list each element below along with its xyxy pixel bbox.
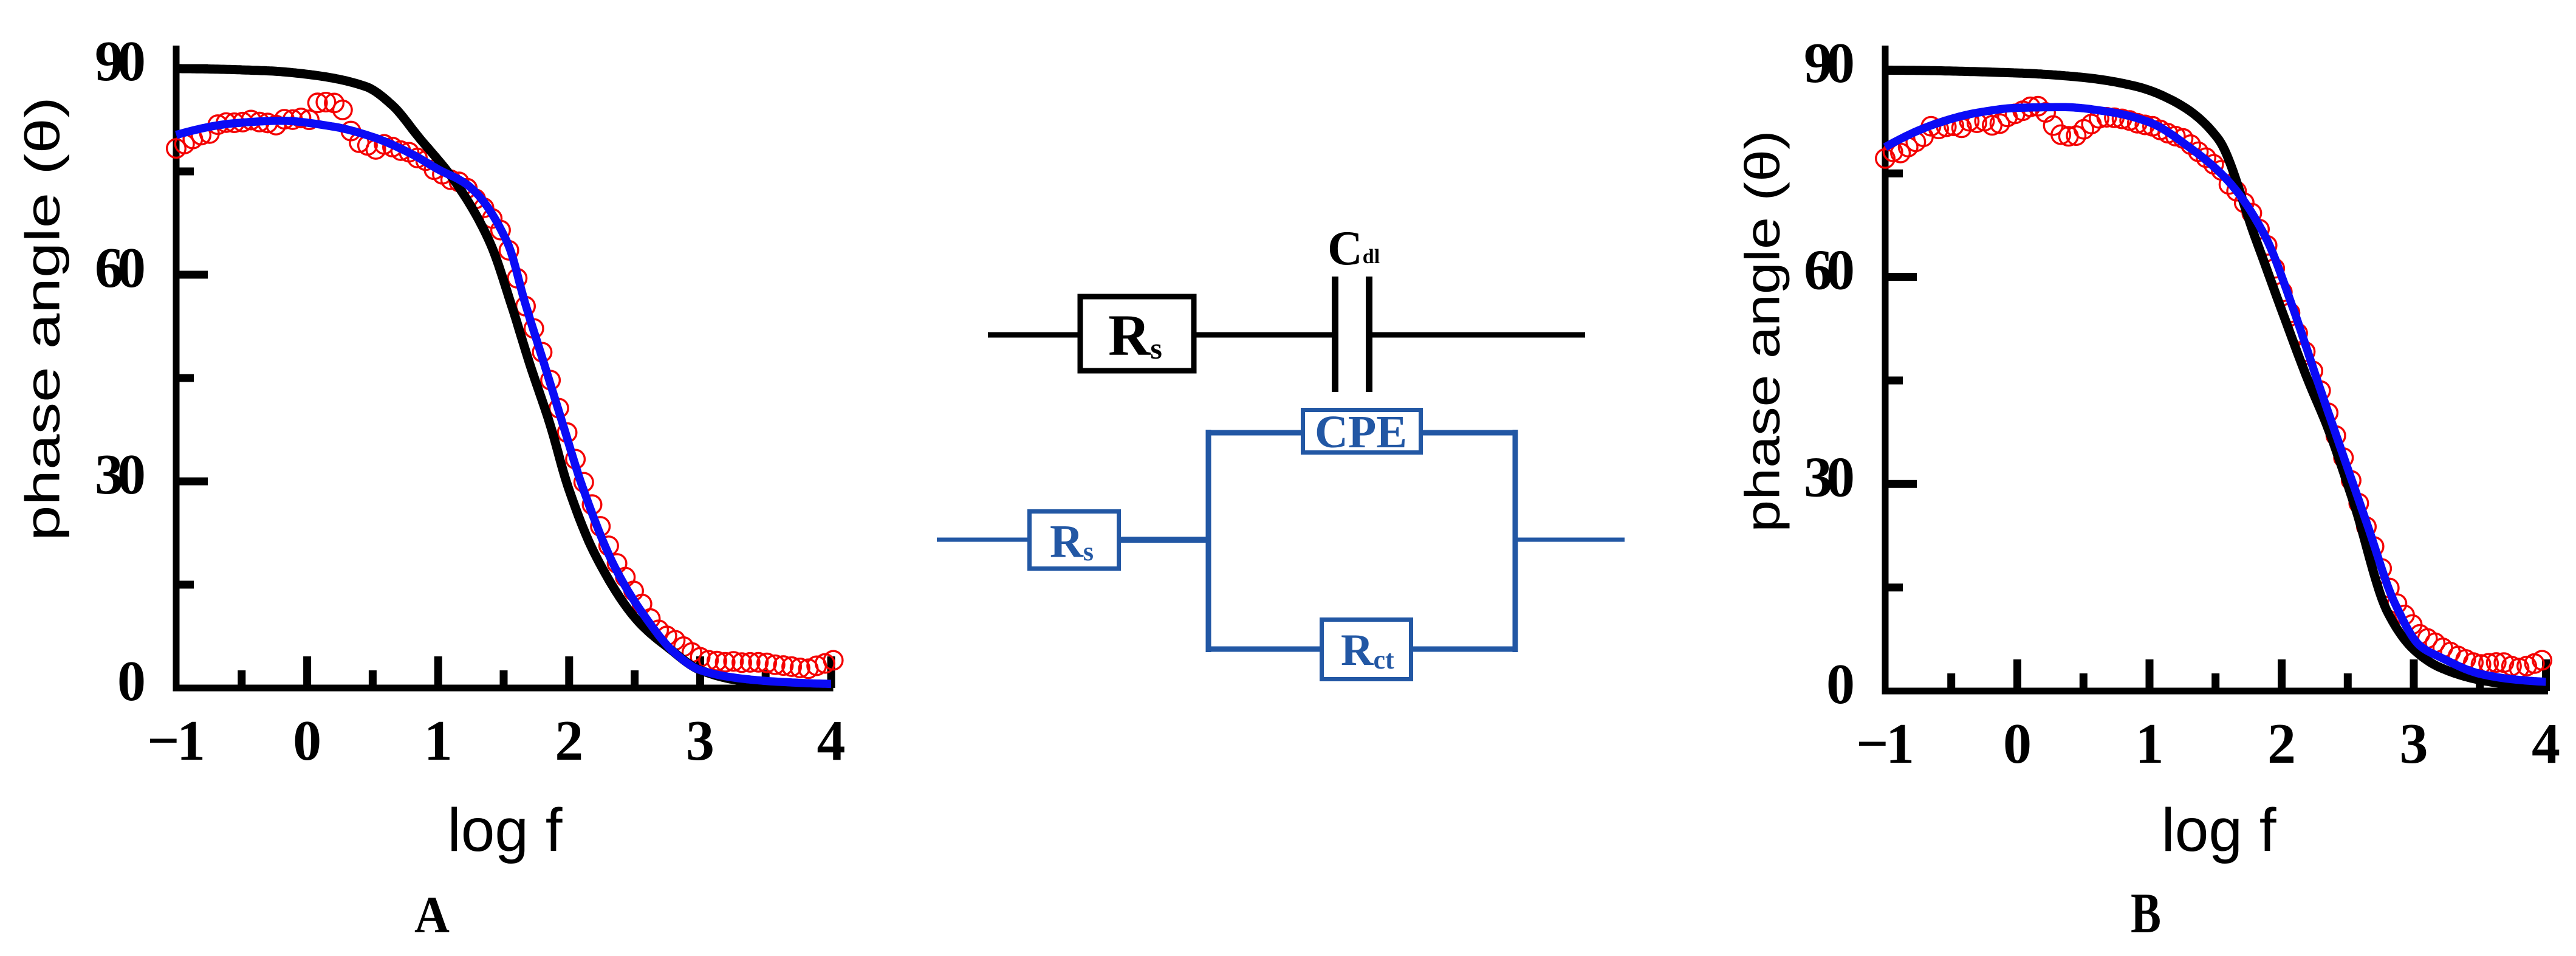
plotB y tick 90 (1885, 66, 1917, 74)
plotA y tick 15 (176, 581, 194, 589)
svg-text:3: 3 (686, 709, 714, 772)
top branch wire left (to CPE) (1206, 430, 1304, 436)
wire left stub (black circuit) (988, 332, 1081, 338)
plotA y tick 75 (176, 168, 194, 176)
plotB x tick 3.0 (2410, 659, 2418, 691)
svg-text:CPE: CPE (1315, 407, 1407, 458)
svg-text:0: 0 (2003, 712, 2032, 775)
capacitor Cdl left plate (1332, 277, 1338, 392)
plotA x tick 1.5 (500, 670, 508, 688)
svg-text:60: 60 (1804, 239, 1855, 302)
svg-text:3: 3 (2400, 712, 2428, 775)
plotB x tick -0.5 (1947, 673, 1955, 691)
bottom branch wire left (to Rct) (1206, 647, 1323, 652)
wire left stub (blue circuit) (937, 538, 1030, 542)
plotB blue fit curve (Rs+CPE||Rct) (1885, 107, 2546, 681)
svg-text:90: 90 (1804, 32, 1855, 95)
plotA y tick 45 (176, 374, 194, 382)
plotA black fit curve (Rs+Cdl) (176, 69, 831, 686)
plotB black fit curve (Rs+Cdl) (1885, 70, 2546, 687)
plotA x-axis (173, 685, 834, 692)
plotA y-axis (173, 46, 180, 692)
plotB x-axis (1882, 688, 2549, 695)
plotB y tick 75 (1885, 170, 1903, 177)
plotA x tick 1.0 (434, 656, 442, 688)
plotA x tick 2.5 (631, 670, 639, 688)
resistor Rct box (blue) (1322, 620, 1411, 679)
svg-text:phase angle (θ): phase angle (θ) (1735, 130, 1789, 532)
svg-text:phase angle (θ): phase angle (θ) (16, 97, 70, 541)
plotB x tick 0.0 (2013, 659, 2021, 691)
svg-text:log f: log f (447, 796, 562, 864)
plotA y tick 60 (176, 271, 208, 279)
plotB x tick 0.5 (2080, 673, 2088, 691)
plotB x tick 2.0 (2278, 659, 2286, 691)
svg-text:30: 30 (1804, 445, 1855, 509)
plotA x tick 0.5 (369, 670, 377, 688)
plotB y tick 45 (1885, 377, 1903, 385)
plotA x tick 3.0 (696, 656, 704, 688)
wire Rs to Cdl (black circuit) (1193, 332, 1333, 338)
svg-text:0: 0 (1826, 653, 1855, 716)
svg-text:log f: log f (2161, 796, 2276, 864)
svg-text:2: 2 (2267, 712, 2296, 775)
svg-text:90: 90 (95, 30, 146, 93)
svg-text:1: 1 (424, 709, 453, 772)
svg-text:0: 0 (117, 650, 146, 713)
plotB x tick 4.0 (2542, 659, 2550, 691)
svg-text:B: B (2131, 882, 2161, 945)
svg-text:30: 30 (95, 443, 146, 506)
plotB x tick 2.5 (2344, 673, 2352, 691)
plotA blue fit curve (Rs+CPE||Rct) (176, 121, 831, 684)
wire Rs to parallel node (blue circuit) (1118, 537, 1211, 543)
svg-text:A: A (414, 886, 450, 944)
plotA x tick 0.0 (303, 656, 311, 688)
plotB y tick 15 (1885, 583, 1903, 591)
plotA x tick 4.0 (827, 656, 835, 688)
CPE box (blue) (1303, 410, 1421, 453)
plotB x tick 1.5 (2211, 673, 2219, 691)
plotB red data circles (1876, 97, 2552, 678)
plotA x tick -0.5 (238, 670, 245, 688)
plotB y tick 30 (1885, 480, 1917, 488)
plotA x tick 3.5 (762, 670, 770, 688)
plotA y tick 90 (176, 64, 208, 72)
parallel loop left vertical wire (1206, 430, 1211, 652)
resistor Rs box (black) (1080, 297, 1194, 371)
bottom branch wire right (from Rct) (1410, 647, 1518, 652)
resistor Rs box (blue) (1030, 512, 1119, 569)
top branch wire right (from CPE) (1420, 430, 1518, 436)
svg-text:4: 4 (817, 709, 846, 772)
plotA x tick 2.0 (565, 656, 573, 688)
svg-text:1: 1 (2136, 712, 2164, 775)
plotB x tick 3.5 (2476, 673, 2484, 691)
svg-text:60: 60 (95, 236, 146, 300)
svg-text:0: 0 (293, 709, 321, 772)
wire right stub (blue circuit) (1515, 538, 1625, 542)
plotB y-axis (1882, 46, 1889, 695)
plotB y tick 60 (1885, 273, 1917, 281)
svg-text:−1: −1 (1856, 712, 1914, 775)
svg-text:4: 4 (2532, 712, 2560, 775)
plotB x tick 1.0 (2146, 659, 2154, 691)
svg-text:−1: −1 (147, 709, 205, 772)
wire right stub (black circuit) (1371, 332, 1585, 338)
plotA red data circles (167, 93, 843, 678)
svg-text:2: 2 (555, 709, 583, 772)
parallel loop right vertical wire (1513, 430, 1518, 652)
plotA y tick 30 (176, 478, 208, 486)
capacitor Cdl right plate (1366, 277, 1372, 392)
